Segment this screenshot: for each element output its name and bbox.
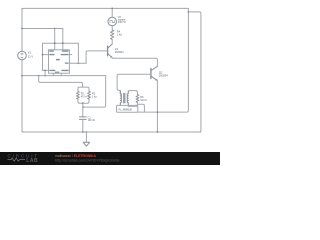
svg-text:http://circuitlab.com/c/478747: http://circuitlab.com/c/47874789/gk3mkbe [55,158,120,162]
wire Q1 base [86,51,108,63]
wire drop from pin2 stub to main horizontal [44,70,46,75]
parallel box R2 R3 bottom edge [78,99,89,103]
IC pin label RESET [62,50,69,51]
wire secondary loop bottom [128,102,137,106]
wire left vertical below V1 [22,60,24,132]
ground [83,132,89,146]
svg-text:440 Hz: 440 Hz [118,21,127,24]
wire IC bottom pin stubs [53,73,61,75]
transistor Q2 [151,66,158,80]
wire top-right jog to far right vertical [188,12,201,132]
wire drop to IC pin V+ [54,29,56,50]
node main at x38.7 [38,75,40,77]
resistor R6 [136,95,139,103]
transformer T1 primary winding [120,91,121,106]
node RC [82,106,84,108]
node OUT [78,62,80,64]
node V2 top [111,7,113,9]
resistor R2 [77,91,80,99]
wire Q2 base to transformer [117,74,151,94]
node ground tap [86,131,88,133]
wire drop to IC pin RST [62,29,64,50]
wire IC left pin2 stub [43,69,49,71]
wire R4 to Q1 collector [111,39,113,44]
wire OUT up to bus [77,43,79,63]
node pin2 stub [44,70,46,72]
wire horizontal bus over IC [43,42,79,44]
IC pin label CONTROL [49,70,55,71]
IC pin label GND [55,72,59,73]
IC pin label THRESHOLD [49,54,54,55]
resistor R3 [88,91,91,99]
svg-text:1 kΩ: 1 kΩ [92,96,97,99]
svg-text:1 kΩ: 1 kΩ [117,34,122,37]
transformer core [124,93,125,103]
IC pin label VCC [49,50,54,51]
wire right vertical from rail to transformer bottom net [138,12,189,112]
IC pin label TRIGGER [61,70,68,71]
node bus x62.8 [62,42,64,44]
wire R6 to right net [137,104,144,112]
svg-text:470 Ω: 470 Ω [81,96,88,99]
wire R2R3 bottom to C1 [82,103,84,117]
wire left vertical above V1 [21,8,23,51]
svg-text:2N3904: 2N3904 [159,74,168,77]
node R2R3 bottom [82,102,84,104]
wire Q1 emitter run to right [112,58,157,67]
transistor Q1 [108,44,113,58]
svg-text:2N3904: 2N3904 [115,51,124,54]
wire C1 to bottom rail [82,119,84,132]
svg-text:100 nF: 100 nF [88,119,96,122]
svg-text:PL_RM833K: PL_RM833K [119,108,133,111]
wire VCC rail segment [22,28,63,30]
transformer T1 secondary winding [127,91,130,107]
svg-text:12 V: 12 V [28,54,34,58]
transformer label box [117,105,138,112]
wire right drop from main to RC node [83,76,106,108]
wire main horizontal from V1 to right [22,75,106,77]
node on left wire at VCC rail [21,28,23,30]
IC pin label DISCHARGE [61,54,69,55]
wire bottom rail [22,131,201,133]
wire OUT pin [69,62,86,64]
wire V2 to R4 [111,26,113,30]
wire IC left pin1 stub [43,54,49,56]
wire left jumper vertical [42,43,44,70]
CircuitLab logo [8,153,40,164]
node jumper pin1 [42,54,44,56]
node C1 bottom [82,131,84,133]
wire V2 top stub [111,8,113,17]
wire DIS pin stub [69,54,71,56]
wire secondary loop top [128,91,137,95]
svg-text:V1: V1 [28,51,32,55]
node emitter/secondary-net crossing [157,111,159,113]
node junction top-right [188,11,190,13]
svg-text:100 Ω: 100 Ω [140,99,147,102]
parallel box R2 R3 top edge [78,87,89,91]
IC pin label OUT [65,63,69,64]
node emitter/bottom rail [157,131,159,133]
IC U1 555 box [49,50,70,74]
svg-text:LAB: LAB [26,158,38,164]
voltage source V1 [18,51,27,60]
node main at x45.1 [44,75,46,77]
IC U1 pin labels [49,50,68,72]
wire top rail [22,8,188,12]
IC part number 555 [56,59,60,61]
footer black bar [0,152,220,165]
node bus x54.7 [54,42,56,44]
node on left wire main [21,75,23,77]
resistor R4 [111,30,114,40]
node on VCC rail at first drop [54,28,56,30]
capacitor C1 [79,117,86,120]
wire branch to R2R3 top [39,76,83,88]
wire Q2 emitter down to bottom rail [156,81,158,132]
source V2 function generator [108,17,117,26]
